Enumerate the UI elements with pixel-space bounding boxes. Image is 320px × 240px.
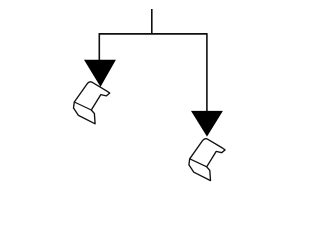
crease right (190, 159, 207, 167)
arrowhead left (84, 60, 116, 87)
wire: horizontal bus (99, 33, 208, 35)
wire: top vertical stem (151, 9, 153, 34)
document icon right (189, 139, 225, 181)
arrowhead right (191, 111, 223, 137)
crease left (74, 102, 91, 110)
wire: right drop (206, 33, 208, 111)
document icon left (74, 82, 110, 124)
wire: left drop (98, 33, 100, 60)
